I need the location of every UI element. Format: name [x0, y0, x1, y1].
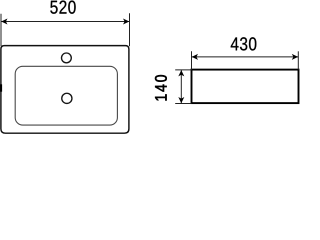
arrowhead 520 right — [123, 19, 129, 25]
dimension text 430 — [231, 37, 257, 50]
dimension line 140 — [180, 70, 182, 103]
arrowhead 430 right — [292, 54, 298, 60]
extension line right (430) — [297, 51, 299, 69]
dimension line 520 — [1, 21, 129, 23]
arrowhead 140 bottom — [178, 97, 184, 103]
extension line bottom (140) — [175, 103, 191, 105]
extension line left (520) — [0, 14, 2, 47]
dimension text 520 — [50, 1, 75, 14]
basin outer rim (top view) — [1, 46, 129, 134]
faucet hole — [62, 53, 72, 63]
cabinet body (side view) — [192, 70, 299, 104]
extension line top (140) — [175, 69, 191, 71]
extension line left (430) — [191, 51, 193, 69]
arrowhead 430 left — [192, 54, 198, 60]
dimension text 140 — [155, 75, 167, 100]
arrowhead 140 top — [178, 70, 184, 76]
extension line right (520) — [129, 13, 131, 46]
dimension line 430 — [192, 56, 298, 58]
basin bowl inner edge — [15, 66, 117, 125]
drain hole — [62, 93, 72, 103]
overflow mark on left rim — [0, 84, 2, 91]
arrowhead 520 left — [1, 19, 7, 25]
